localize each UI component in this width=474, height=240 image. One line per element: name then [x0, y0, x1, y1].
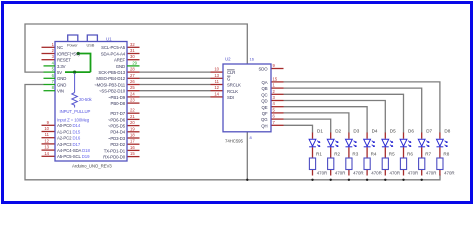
svg-text:GND: GND	[57, 82, 66, 87]
svg-text:A5-PC5-SCL D19: A5-PC5-SCL D19	[57, 154, 90, 159]
svg-text:GND: GND	[57, 76, 66, 81]
svg-text:32: 32	[130, 42, 135, 47]
svg-text:R2: R2	[334, 151, 340, 156]
svg-text:17: 17	[130, 139, 135, 144]
svg-text:R3: R3	[352, 151, 358, 156]
svg-text:470R: 470R	[444, 170, 455, 175]
svg-text:27: 27	[130, 73, 135, 78]
svg-text:26: 26	[130, 79, 135, 84]
svg-text:R6: R6	[407, 151, 413, 156]
svg-text:SRCLK: SRCLK	[227, 83, 241, 88]
svg-text:24: 24	[130, 91, 135, 96]
svg-text:USB: USB	[87, 43, 95, 48]
svg-text:470R: 470R	[335, 170, 346, 175]
svg-text:15: 15	[130, 151, 135, 156]
svg-text:R8: R8	[443, 151, 449, 156]
svg-text:MISO-PB4-D12: MISO-PB4-D12	[96, 76, 125, 81]
svg-text:~PB1-D9: ~PB1-D9	[108, 95, 126, 100]
svg-text:U2: U2	[225, 57, 231, 62]
svg-text:PD2-D2: PD2-D2	[110, 142, 125, 147]
svg-text:INPUT_PULLUP: INPUT_PULLUP	[60, 109, 91, 114]
svg-text:28: 28	[130, 67, 135, 72]
svg-text:D1: D1	[317, 129, 323, 134]
svg-text:PD7-D7: PD7-D7	[110, 111, 125, 116]
svg-text:12: 12	[44, 138, 49, 143]
svg-text:R4: R4	[371, 151, 377, 156]
svg-text:Input Z = 100Meg: Input Z = 100Meg	[57, 117, 90, 122]
svg-text:SDA-PC4-A4: SDA-PC4-A4	[101, 51, 126, 56]
svg-text:CLR: CLR	[227, 70, 235, 75]
svg-text:RCLK: RCLK	[227, 89, 238, 94]
svg-text:A0-PC0 D14: A0-PC0 D14	[57, 123, 81, 128]
svg-text:A4-PC4-SDA D18: A4-PC4-SDA D18	[57, 148, 90, 153]
svg-text:18: 18	[130, 133, 135, 138]
svg-text:R1: R1	[316, 151, 322, 156]
svg-text:16: 16	[250, 57, 255, 62]
svg-text:QB: QB	[261, 86, 267, 91]
svg-text:23: 23	[130, 98, 135, 103]
svg-text:D6: D6	[408, 129, 414, 134]
svg-text:QA: QA	[261, 80, 267, 85]
svg-text:GND: GND	[116, 64, 125, 69]
svg-text:QC: QC	[261, 92, 267, 97]
svg-text:22: 22	[130, 108, 135, 113]
svg-text:SDI: SDI	[227, 95, 234, 100]
svg-text:3.3V: 3.3V	[57, 64, 66, 69]
svg-text:SCK-PB5-D13: SCK-PB5-D13	[98, 70, 125, 75]
svg-text:15: 15	[273, 76, 278, 81]
svg-text:14: 14	[214, 91, 219, 96]
svg-text:SDO: SDO	[258, 67, 268, 72]
svg-text:D4: D4	[372, 129, 378, 134]
svg-text:25: 25	[130, 85, 135, 90]
svg-text:VIN: VIN	[57, 89, 64, 94]
svg-text:14: 14	[44, 151, 49, 156]
svg-text:20-50k: 20-50k	[79, 97, 92, 102]
svg-text:470R: 470R	[353, 170, 364, 175]
svg-text:QH: QH	[261, 123, 267, 128]
svg-text:PD4-D4: PD4-D4	[110, 130, 125, 135]
svg-text:D8: D8	[444, 129, 450, 134]
svg-text:D7: D7	[426, 129, 432, 134]
svg-text:QD: QD	[261, 99, 267, 104]
svg-text:QF: QF	[262, 111, 268, 116]
svg-text:20: 20	[130, 120, 135, 125]
svg-text:~PD3-D3: ~PD3-D3	[108, 136, 126, 141]
svg-text:A3-PC3 D17: A3-PC3 D17	[57, 142, 81, 147]
svg-text:D5: D5	[390, 129, 396, 134]
svg-text:12: 12	[214, 85, 219, 90]
svg-text:470R: 470R	[408, 170, 419, 175]
svg-text:R7: R7	[425, 151, 431, 156]
svg-text:21: 21	[130, 114, 135, 119]
svg-text:29: 29	[132, 60, 137, 65]
svg-text:13: 13	[214, 73, 219, 78]
svg-text:QG: QG	[261, 117, 268, 122]
svg-text:~PD6-D6: ~PD6-D6	[108, 117, 126, 122]
svg-text:NC: NC	[57, 45, 63, 50]
svg-text:QE: QE	[261, 105, 267, 110]
svg-text:TX-PD1-D1: TX-PD1-D1	[104, 148, 126, 153]
svg-text:RX-PD0-D0: RX-PD0-D0	[103, 155, 125, 160]
svg-text:470R: 470R	[371, 170, 382, 175]
svg-text:SCL-PC5-A5: SCL-PC5-A5	[101, 45, 126, 50]
svg-text:D2: D2	[335, 129, 341, 134]
svg-text:13: 13	[44, 145, 49, 150]
svg-text:74HC595: 74HC595	[225, 139, 244, 144]
svg-text:D3: D3	[353, 129, 359, 134]
svg-text:~PD5-D5: ~PD5-D5	[108, 124, 126, 129]
svg-text:IOREF(+5V): IOREF(+5V)	[57, 51, 80, 56]
svg-text:470R: 470R	[390, 170, 401, 175]
svg-text:A1-PC1 D15: A1-PC1 D15	[57, 129, 81, 134]
svg-text:A2-PC2 D16: A2-PC2 D16	[57, 136, 81, 141]
svg-text:U1: U1	[106, 37, 112, 42]
svg-text:AREF: AREF	[114, 58, 126, 63]
svg-text:11: 11	[215, 79, 220, 84]
svg-text:10: 10	[44, 126, 49, 131]
svg-text:Arduino_UNO_REV3: Arduino_UNO_REV3	[72, 164, 112, 169]
svg-text:11: 11	[45, 132, 50, 137]
svg-text:~SS-PB2-D10: ~SS-PB2-D10	[99, 89, 126, 94]
svg-text:19: 19	[130, 126, 135, 131]
svg-text:PB0-D8: PB0-D8	[111, 101, 126, 106]
svg-text:30: 30	[130, 54, 135, 59]
svg-text:~MOSI-PB3-D11: ~MOSI-PB3-D11	[94, 82, 125, 87]
svg-text:470R: 470R	[426, 170, 437, 175]
svg-text:470R: 470R	[317, 170, 328, 175]
svg-text:5V: 5V	[57, 70, 62, 75]
svg-text:R5: R5	[389, 151, 395, 156]
svg-text:16: 16	[130, 145, 135, 150]
svg-text:10: 10	[214, 67, 219, 72]
svg-text:31: 31	[130, 48, 135, 53]
svg-text:Power: Power	[67, 43, 78, 48]
svg-text:RESET: RESET	[57, 58, 71, 63]
